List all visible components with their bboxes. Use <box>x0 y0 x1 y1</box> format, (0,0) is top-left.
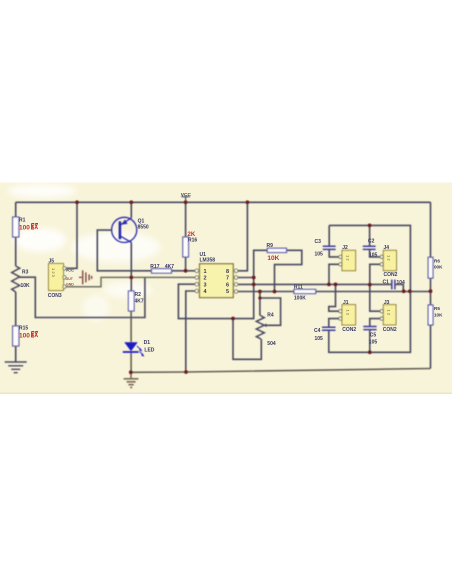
svg-text:R11: R11 <box>294 284 303 290</box>
svg-text:C4: C4 <box>314 328 321 334</box>
svg-text:J1: J1 <box>343 300 349 306</box>
svg-text:2K: 2K <box>188 232 196 238</box>
svg-text:105: 105 <box>369 253 378 259</box>
svg-text:J2: J2 <box>342 245 348 251</box>
svg-text:100K: 100K <box>294 295 306 301</box>
svg-text:105: 105 <box>315 336 324 342</box>
svg-text:C3: C3 <box>315 239 322 245</box>
svg-text:J5: J5 <box>49 259 55 265</box>
svg-text:4K7: 4K7 <box>165 264 174 270</box>
svg-text:7: 7 <box>226 276 229 282</box>
svg-text:6: 6 <box>226 282 229 288</box>
svg-text:4K7: 4K7 <box>135 298 144 304</box>
svg-text:CON3: CON3 <box>48 293 62 299</box>
svg-text:OUT: OUT <box>66 277 74 281</box>
svg-text:J3: J3 <box>384 300 390 306</box>
svg-text:1 2: 1 2 <box>346 310 351 316</box>
svg-text:R16: R16 <box>188 238 197 244</box>
svg-text:Q1: Q1 <box>138 218 145 224</box>
svg-text:00K: 00K <box>434 265 443 270</box>
svg-text:1: 1 <box>204 269 207 275</box>
svg-text:VCC: VCC <box>181 192 192 198</box>
svg-text:R3: R3 <box>22 270 29 276</box>
svg-text:C5: C5 <box>370 333 377 339</box>
svg-text:104: 104 <box>397 280 406 286</box>
svg-text:GND: GND <box>66 282 74 286</box>
svg-text:3: 3 <box>204 282 207 288</box>
svg-text:504: 504 <box>267 341 276 347</box>
svg-text:LED: LED <box>144 347 154 353</box>
svg-text:105: 105 <box>369 339 378 345</box>
svg-text:LM358: LM358 <box>200 258 216 264</box>
svg-text:R15: R15 <box>19 326 28 332</box>
svg-text:1 2 3: 1 2 3 <box>51 268 56 278</box>
svg-text:10K: 10K <box>267 255 279 262</box>
svg-text:10K: 10K <box>21 283 31 289</box>
svg-text:8: 8 <box>226 269 229 275</box>
svg-text:R4: R4 <box>267 312 274 318</box>
svg-text:R17: R17 <box>150 264 159 270</box>
svg-text:VCC: VCC <box>66 267 75 272</box>
svg-text:R9: R9 <box>267 243 274 249</box>
svg-text:10K: 10K <box>434 312 443 317</box>
svg-text:105: 105 <box>315 252 324 258</box>
svg-text:2: 2 <box>204 276 207 282</box>
svg-text:C1: C1 <box>383 279 390 285</box>
svg-text:CON2: CON2 <box>342 327 356 333</box>
svg-text:1 2: 1 2 <box>387 255 392 261</box>
svg-text:J4: J4 <box>384 245 390 251</box>
svg-text:CON2: CON2 <box>384 272 398 278</box>
svg-text:C2: C2 <box>368 238 375 244</box>
svg-text:8550: 8550 <box>138 225 149 231</box>
svg-text:R2: R2 <box>135 292 142 298</box>
svg-text:100: 100 <box>19 224 30 231</box>
svg-text:D1: D1 <box>144 340 151 346</box>
svg-text:CON2: CON2 <box>383 327 397 333</box>
svg-text:R6: R6 <box>434 258 440 263</box>
svg-text:R1: R1 <box>19 218 26 224</box>
svg-text:R5: R5 <box>434 306 440 311</box>
svg-text:1 2: 1 2 <box>346 255 351 261</box>
svg-text:5: 5 <box>226 289 229 295</box>
svg-text:1 2: 1 2 <box>387 310 392 316</box>
svg-text:100: 100 <box>19 332 30 339</box>
